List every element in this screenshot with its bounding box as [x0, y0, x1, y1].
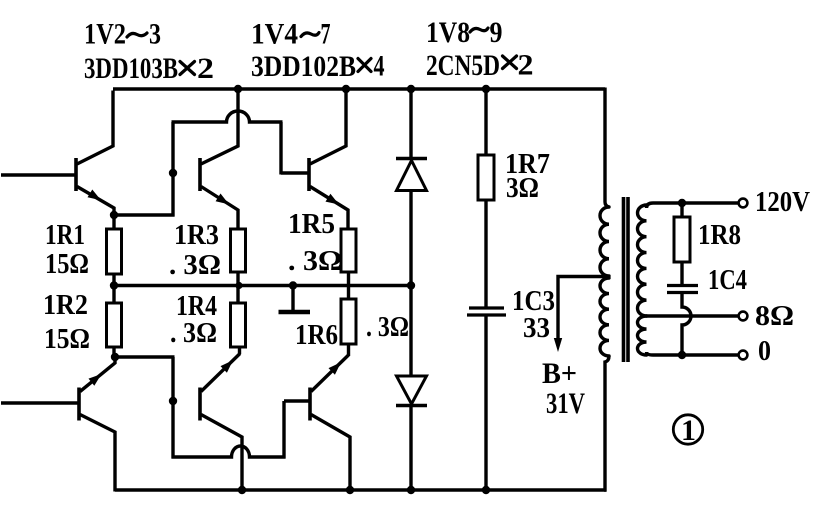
wire diode column top — [409, 89, 412, 158]
svg-text:. 3Ω: . 3Ω — [366, 311, 409, 343]
resistor 1R5 — [341, 229, 356, 300]
node diode bottom rail — [407, 486, 415, 494]
svg-text:31V: 31V — [546, 387, 585, 420]
svg-text:15Ω: 15Ω — [45, 248, 89, 280]
svg-text:1V4: 1V4 — [251, 18, 298, 51]
svg-text:1C4: 1C4 — [708, 264, 747, 296]
wire diode mid — [409, 190, 412, 377]
svg-text:1R5: 1R5 — [288, 208, 335, 240]
transistor V4a — [79, 356, 115, 492]
label 2CN5Dx2 — [426, 49, 534, 83]
label 3DD103Bx2 — [84, 52, 214, 85]
wire 8ohm tap — [647, 314, 739, 317]
B+ arrow — [554, 338, 562, 352]
svg-text:. 3Ω: . 3Ω — [170, 317, 217, 349]
svg-text:1R1: 1R1 — [45, 219, 85, 251]
svg-text:3DD103B: 3DD103B — [84, 52, 178, 85]
svg-text:0: 0 — [758, 335, 771, 367]
wire primary top lead — [605, 88, 609, 208]
wire C4 to zero with hop — [682, 293, 691, 357]
node mid rail r3 — [235, 282, 242, 289]
svg-text:1R6: 1R6 — [295, 319, 338, 351]
svg-text:1: 1 — [681, 414, 696, 447]
transformer primary upper — [600, 207, 609, 276]
svg-text:2: 2 — [197, 52, 214, 85]
label 1V8-9 — [426, 16, 503, 49]
node V4a emitter junction — [111, 353, 119, 361]
wire primary bottom lead — [604, 356, 609, 490]
svg-text:1V8: 1V8 — [426, 16, 470, 49]
svg-text:9: 9 — [490, 16, 503, 49]
wire top rail — [113, 87, 605, 90]
resistor 1R1 — [107, 215, 122, 287]
label 3DD102Bx4 — [251, 50, 385, 84]
wire bottom rail — [115, 488, 606, 491]
capacitor 1C3 — [467, 308, 506, 490]
svg-text:7: 7 — [321, 18, 331, 51]
svg-text:1R2: 1R2 — [43, 289, 88, 321]
wire input top — [1, 173, 76, 176]
node R8 top — [678, 199, 686, 207]
svg-text:3Ω: 3Ω — [506, 172, 539, 204]
wire 120V line — [647, 203, 739, 208]
terminal 0 — [739, 351, 748, 360]
figure number 1 — [673, 414, 702, 447]
wire drive top — [114, 111, 310, 217]
resistor 1R4 — [231, 303, 246, 354]
svg-text:3: 3 — [149, 18, 161, 51]
svg-text:1R8: 1R8 — [698, 219, 741, 251]
label 1V2-3 — [84, 18, 161, 51]
capacitor 1C4 — [667, 286, 698, 293]
transistor V2a — [76, 91, 114, 217]
node V5 base junction — [169, 397, 177, 405]
svg-text:4: 4 — [374, 50, 385, 83]
node diode top rail — [407, 85, 415, 93]
transistor V7 — [310, 355, 350, 491]
transformer secondary upper — [638, 205, 647, 316]
resistor 1R8 — [674, 203, 690, 286]
transistor V3 — [200, 91, 238, 231]
transistor V5 — [200, 354, 242, 492]
wire 0 line — [647, 352, 739, 355]
node C4 bottom — [678, 351, 686, 359]
svg-text:8Ω: 8Ω — [755, 300, 794, 332]
wire mid rail — [114, 284, 411, 287]
node V7 collector on rail — [346, 486, 354, 494]
wire input bottom — [1, 401, 79, 404]
resistor 1R6 — [341, 299, 356, 356]
diode V8 — [396, 159, 427, 191]
node V3 collector on rail — [234, 85, 242, 93]
node ground junction — [289, 281, 297, 289]
svg-text:2: 2 — [518, 49, 534, 82]
node V2b base junction — [169, 169, 177, 177]
svg-text:120V: 120V — [755, 186, 810, 218]
label 1V4-7 — [251, 18, 331, 51]
terminal 8ohm — [739, 312, 748, 321]
wire diode column bottom — [409, 404, 412, 490]
node V6 collector on rail — [342, 85, 350, 93]
svg-text:1R3: 1R3 — [174, 219, 219, 251]
transformer secondary lower — [638, 316, 647, 355]
svg-text:B+: B+ — [542, 357, 577, 390]
resistor 1R3 — [231, 229, 246, 304]
ground — [279, 285, 311, 312]
svg-text:. 3Ω: . 3Ω — [169, 249, 221, 281]
node diode mid rail — [407, 281, 415, 289]
svg-text:. 3Ω: . 3Ω — [288, 245, 342, 277]
resistor 1R2 — [107, 285, 122, 358]
wire drive bottom — [115, 357, 311, 459]
node C3 bottom rail — [482, 486, 490, 494]
resistor 1R7 — [478, 89, 494, 307]
node V5 collector on rail — [238, 486, 246, 494]
node mid rail left — [110, 281, 118, 289]
svg-text:1V2: 1V2 — [84, 18, 126, 51]
svg-text:2CN5D: 2CN5D — [426, 49, 500, 82]
svg-text:33: 33 — [523, 312, 550, 344]
diode V9 — [396, 376, 427, 406]
terminal 120V — [739, 199, 748, 208]
svg-text:3DD102B: 3DD102B — [251, 50, 356, 83]
svg-text:15Ω: 15Ω — [44, 323, 90, 355]
wire B+ tap — [558, 277, 610, 342]
transformer core — [624, 197, 629, 362]
transistor V6 — [309, 91, 348, 231]
transformer primary lower — [600, 278, 609, 356]
node V2a emitter junction — [110, 211, 118, 219]
node R7 top rail — [482, 85, 490, 93]
